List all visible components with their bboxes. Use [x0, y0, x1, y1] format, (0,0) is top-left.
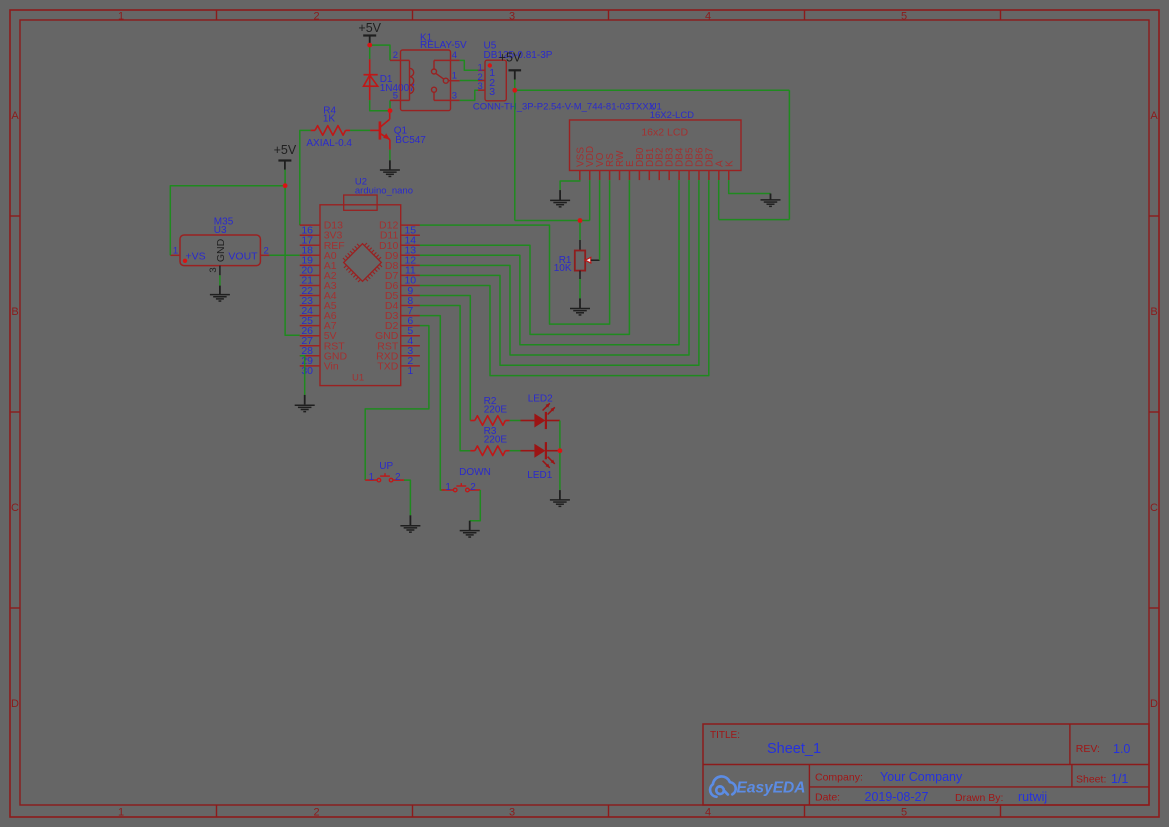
svg-text:1.0: 1.0	[1113, 742, 1130, 756]
svg-text:+5V: +5V	[358, 21, 381, 35]
svg-text:3: 3	[478, 81, 483, 92]
svg-text:1: 1	[452, 71, 457, 82]
svg-text:1K: 1K	[323, 114, 336, 125]
svg-text:Drawn By:: Drawn By:	[955, 792, 1003, 804]
svg-text:Sheet_1: Sheet_1	[767, 741, 821, 757]
svg-text:30: 30	[301, 365, 313, 377]
svg-text:3: 3	[509, 11, 515, 23]
svg-text:2: 2	[264, 245, 269, 256]
svg-text:1: 1	[118, 807, 124, 819]
svg-text:EasyEDA: EasyEDA	[737, 780, 806, 797]
svg-text:4: 4	[705, 807, 711, 819]
svg-text:U1: U1	[352, 373, 364, 384]
svg-text:AXIAL-0.4: AXIAL-0.4	[306, 138, 352, 149]
svg-text:5: 5	[393, 90, 398, 101]
svg-text:Vin: Vin	[324, 360, 339, 372]
svg-text:B: B	[11, 306, 18, 318]
svg-text:1: 1	[369, 472, 375, 483]
svg-text:D: D	[1150, 698, 1158, 710]
svg-text:A: A	[1150, 110, 1158, 122]
svg-text:4: 4	[705, 11, 711, 23]
svg-text:+VS: +VS	[186, 251, 206, 263]
svg-text:4: 4	[452, 50, 457, 61]
svg-text:Date:: Date:	[815, 792, 840, 804]
svg-text:TITLE:: TITLE:	[710, 730, 740, 741]
svg-text:DOWN: DOWN	[459, 467, 491, 478]
svg-text:220E: 220E	[484, 435, 508, 446]
svg-text:BC547: BC547	[395, 135, 426, 146]
svg-text:16X2-LCD: 16X2-LCD	[650, 110, 694, 121]
svg-text:1: 1	[118, 11, 124, 23]
svg-text:220E: 220E	[484, 405, 508, 416]
svg-text:1: 1	[407, 365, 413, 377]
svg-text:TXD: TXD	[377, 360, 398, 372]
svg-text:Sheet:: Sheet:	[1076, 774, 1106, 786]
svg-text:2: 2	[313, 11, 319, 23]
svg-text:UP: UP	[379, 461, 393, 472]
svg-text:Your Company: Your Company	[880, 770, 963, 784]
svg-text:16x2 LCD: 16x2 LCD	[641, 127, 688, 139]
svg-text:REV:: REV:	[1076, 743, 1100, 755]
svg-text:RELAY-5V: RELAY-5V	[420, 40, 467, 51]
svg-text:CONN-TH_3P-P2.54-V-M_744-81-03: CONN-TH_3P-P2.54-V-M_744-81-03TXXX	[473, 102, 656, 113]
svg-text:D: D	[11, 698, 19, 710]
svg-text:rutwij: rutwij	[1018, 790, 1047, 804]
svg-text:2: 2	[313, 807, 319, 819]
svg-text:3: 3	[509, 807, 515, 819]
svg-text:1: 1	[445, 482, 451, 493]
svg-text:B: B	[1150, 306, 1157, 318]
svg-text:1: 1	[173, 245, 178, 256]
svg-text:+5V: +5V	[274, 143, 297, 157]
svg-text:K: K	[724, 160, 735, 167]
svg-text:2: 2	[393, 50, 398, 61]
svg-text:5: 5	[901, 807, 907, 819]
svg-text:A: A	[11, 110, 19, 122]
svg-text:2019-08-27: 2019-08-27	[865, 790, 929, 804]
svg-text:5: 5	[901, 11, 907, 23]
svg-text:GND: GND	[215, 238, 227, 262]
svg-text:VOUT: VOUT	[228, 251, 258, 263]
svg-text:1/1: 1/1	[1111, 772, 1128, 786]
svg-text:+5V: +5V	[499, 51, 522, 65]
svg-text:2: 2	[395, 472, 401, 483]
svg-text:Company:: Company:	[815, 772, 863, 784]
svg-text:2: 2	[470, 482, 476, 493]
svg-text:LED1: LED1	[527, 470, 552, 481]
svg-text:3: 3	[489, 86, 495, 98]
svg-text:C: C	[11, 502, 19, 514]
svg-text:10K: 10K	[554, 263, 572, 274]
svg-text:3: 3	[208, 267, 219, 272]
svg-text:C: C	[1150, 502, 1158, 514]
svg-text:3: 3	[452, 90, 457, 101]
